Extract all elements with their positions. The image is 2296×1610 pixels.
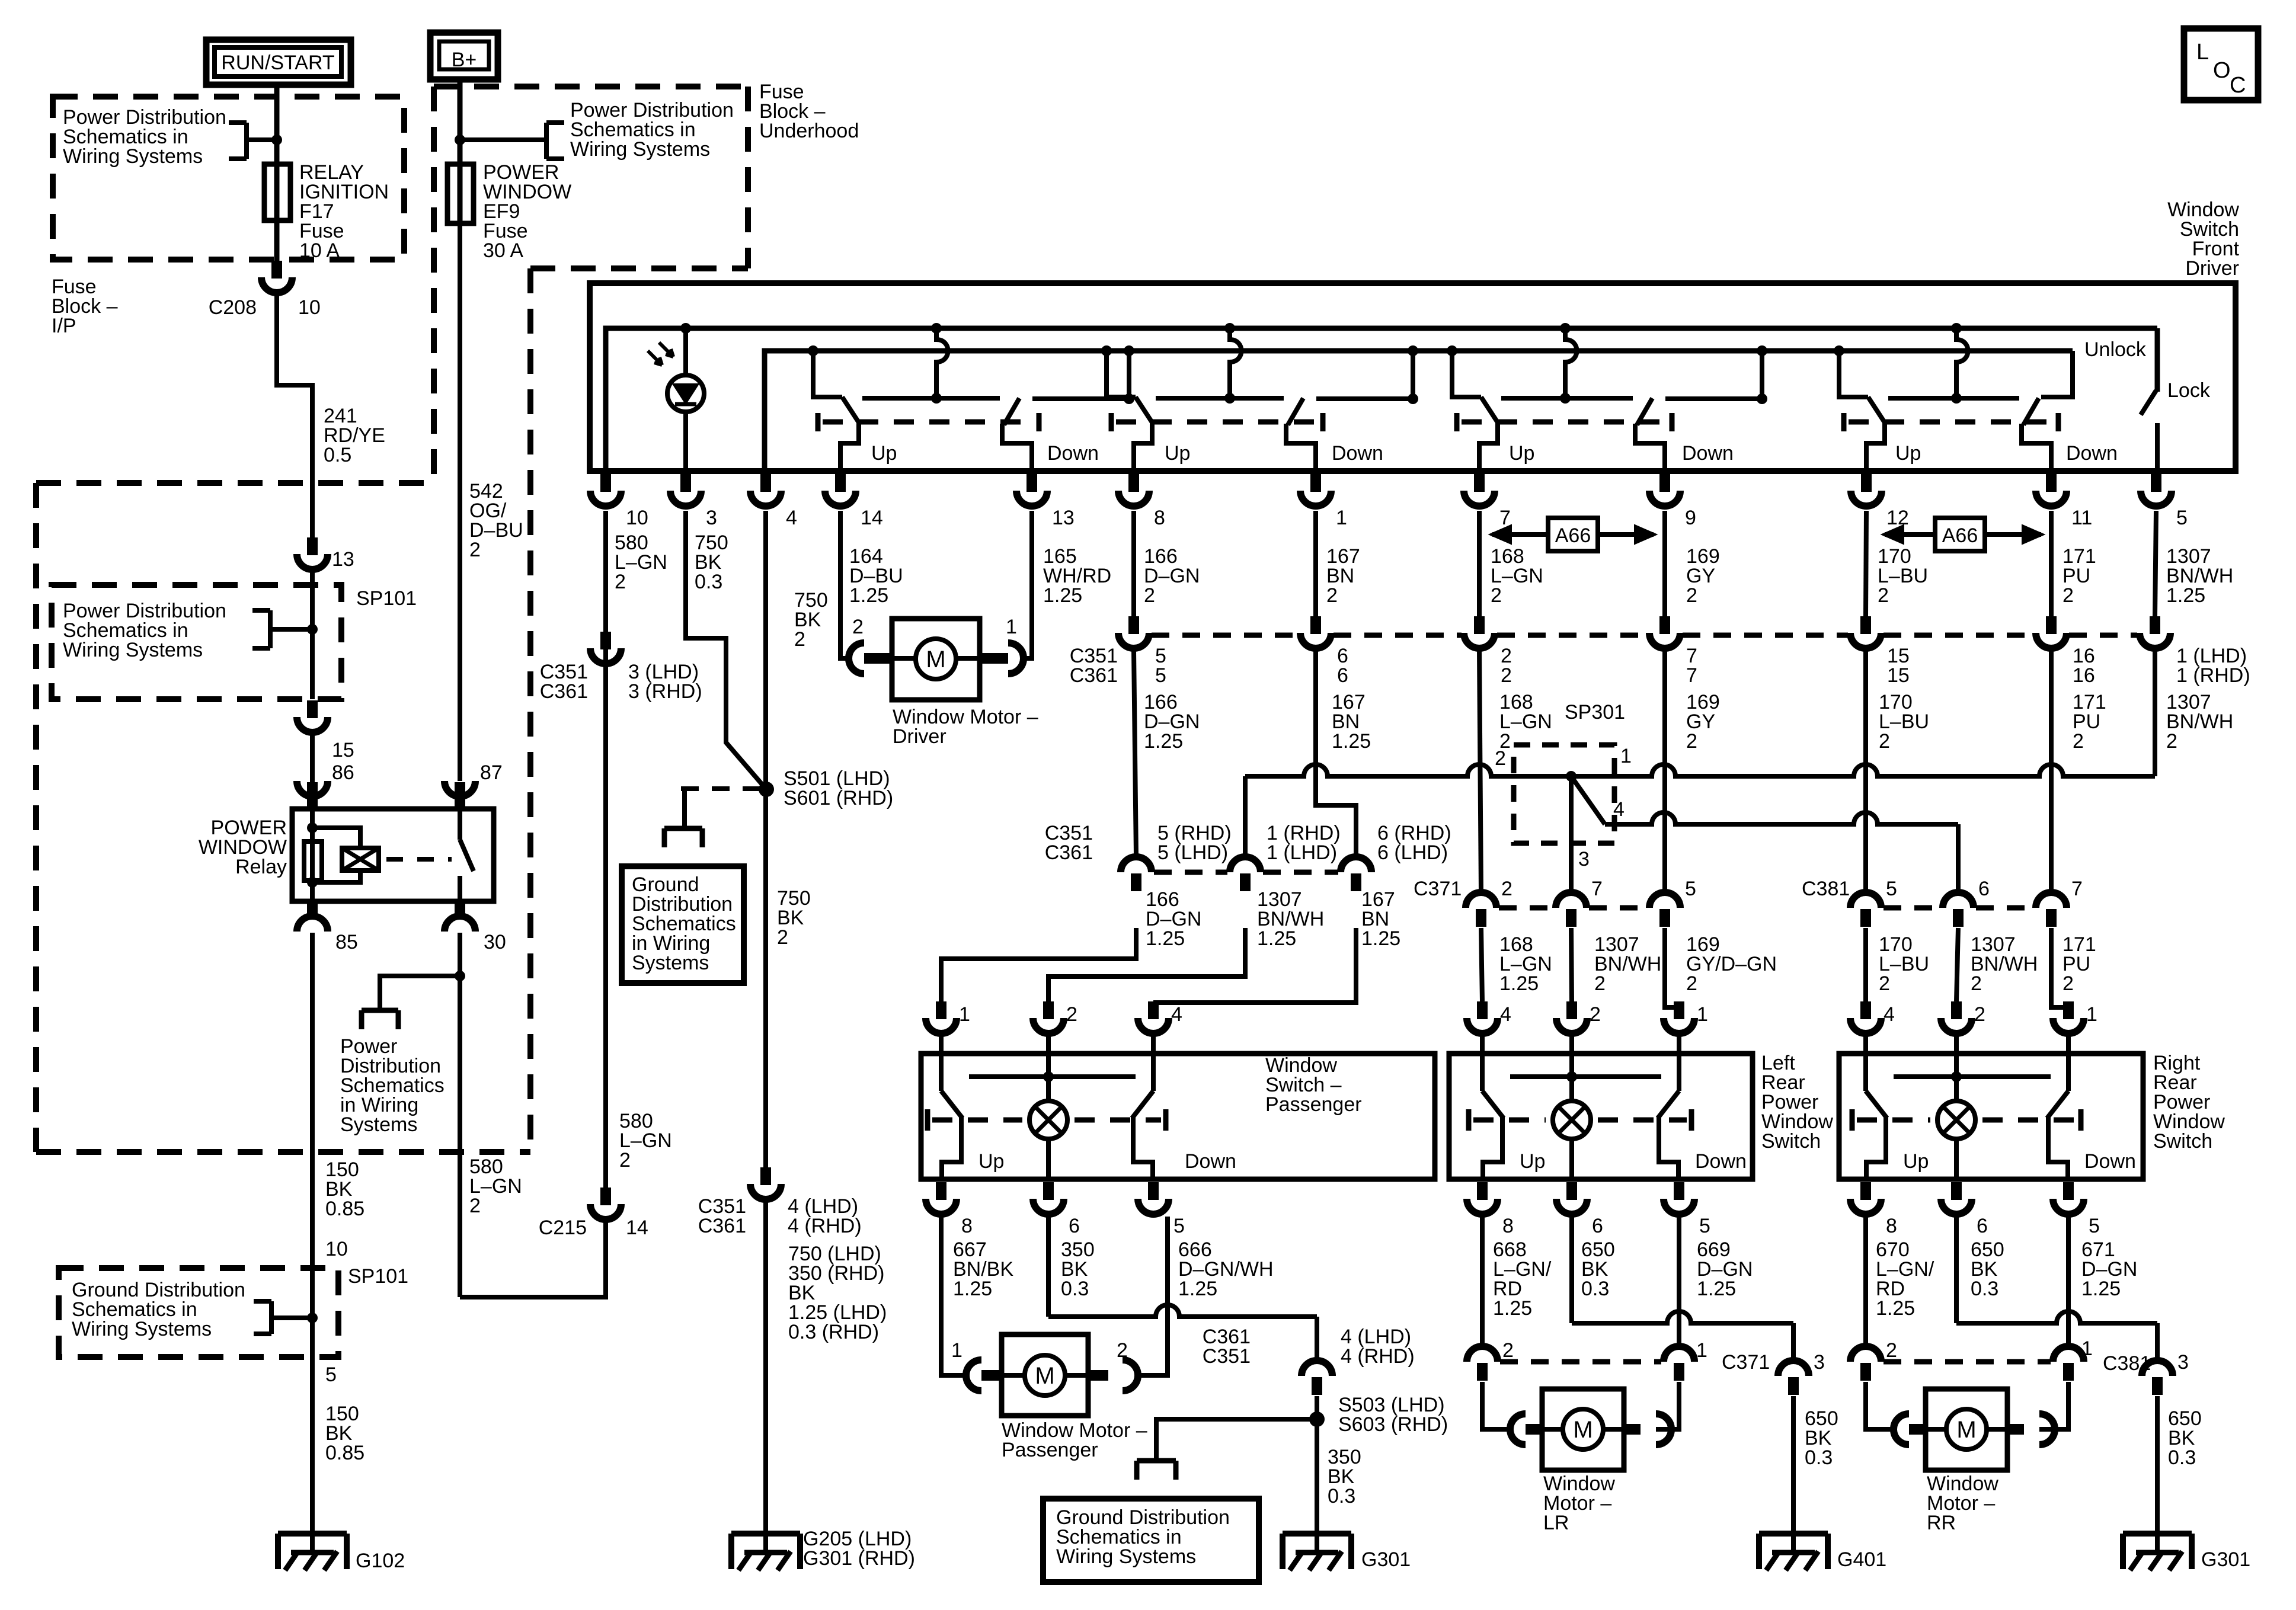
switch blade Down [1288,398,1303,425]
switch Down fixed contact line [1316,396,1413,401]
right rear power window switch bottom connector pin cups [1860,1182,1871,1200]
svg-text:2: 2 [1590,1003,1601,1026]
connector C381 pin 3 [2142,1361,2173,1376]
LED backlight drop [680,323,691,334]
svg-text:30: 30 [484,931,506,953]
switch Down pivot to pin [1286,424,1316,471]
svg-text:30 A: 30 A [483,239,523,262]
svg-text:12: 12 [1886,507,1909,529]
svg-text:8: 8 [1154,507,1165,529]
bus B drop to Down contact [1408,345,1418,356]
window motor RR symbol [1946,1409,1987,1449]
wire SP101 to relay pin 86 [310,735,315,782]
driver switch connector pin 3 [680,474,691,492]
LOC reference symbol [2184,28,2258,100]
wire 1307 to LR switch pin 2 [1571,928,1572,1001]
wire 580 L-GN to C215 [460,1222,606,1297]
bus A drop to Up contact [1224,323,1235,334]
svg-text:RUN/START: RUN/START [221,52,334,74]
svg-text:1.25: 1.25 [1697,1278,1736,1300]
left rear power window switch box [1449,1054,1753,1179]
driver switch connector pin 13 [1027,474,1037,492]
svg-text:0.85: 0.85 [325,1198,364,1220]
bus A drop to Up contact [1560,323,1571,334]
svg-text:1.25: 1.25 [1493,1297,1532,1320]
switch Up fixed contact line [1888,396,2019,401]
svg-text:2: 2 [2062,972,2074,995]
svg-text:0.5: 0.5 [324,444,351,466]
svg-text:3: 3 [2177,1351,2189,1374]
svg-text:14: 14 [626,1217,648,1239]
wire 580 L-GN 2 from window switch pin 10 [603,511,608,1188]
wire 666 to passenger motor [1137,1217,1168,1375]
connector C351/C361 cup pin 5 [1128,616,1139,634]
svg-text:2: 2 [1326,584,1338,607]
svg-text:Systems: Systems [340,1113,417,1136]
left rear power window switch Down blade [1658,1091,1679,1118]
svg-text:6 (LHD): 6 (LHD) [1377,841,1448,864]
splice S501/S601 [759,782,774,797]
svg-text:4: 4 [1171,1003,1182,1026]
svg-text:Down: Down [2066,442,2118,465]
svg-text:C371: C371 [1414,878,1462,900]
window motor LR box [1542,1389,1624,1470]
svg-text:2: 2 [2062,584,2074,607]
ground G401 [1791,1396,1796,1536]
connector C381 cup pin 6 [1943,892,1974,908]
svg-text:1.25: 1.25 [1332,730,1371,753]
svg-text:3: 3 [1814,1351,1825,1374]
svg-text:8: 8 [961,1215,973,1237]
junction node to power distribution reference [455,971,465,981]
switch Up fixed contact line [1156,396,1284,401]
connector C351 C361 pin 3 in 580 wire [600,632,611,649]
switch blade Up [1868,397,1886,424]
switch Up fixed contact line [1501,396,1633,401]
window switch front driver box [590,283,2236,471]
svg-text:C371: C371 [1722,1351,1770,1374]
driver switch connector pin 5 [2151,474,2161,492]
svg-text:2: 2 [619,1149,631,1172]
svg-text:Wiring Systems: Wiring Systems [63,639,203,661]
svg-text:Systems: Systems [632,952,709,974]
svg-text:4: 4 [1500,1003,1511,1026]
svg-text:8: 8 [1886,1215,1897,1237]
driver switch connector pin 9 [1659,474,1670,492]
svg-text:14: 14 [861,507,883,529]
driver switch connector pin 12 [1861,474,1872,492]
svg-text:2: 2 [1879,972,1890,995]
fuse EF9 POWER WINDOW 30 A [447,164,474,223]
wire 164 D-BU to driver motor [840,511,849,658]
right rear power window switch Down blade [2047,1091,2068,1118]
driver switch connector pin 1 [1310,474,1321,492]
svg-text:10 A: 10 A [299,239,340,262]
wire 671 to RR motor connector [2066,1217,2071,1346]
dashed box Fuse Block - I/P (relay section) [36,480,434,486]
svg-text:C361: C361 [1070,664,1118,687]
svg-text:S601 (RHD): S601 (RHD) [784,787,893,809]
svg-text:Wiring Systems: Wiring Systems [63,145,203,168]
SP301 pin 3 wire [1569,776,1574,892]
connector C351/C361 cup pin 6 [1310,616,1321,634]
svg-text:2: 2 [1501,878,1512,900]
svg-text:5: 5 [1173,1215,1185,1237]
svg-text:3: 3 [1578,848,1590,870]
svg-text:2: 2 [852,616,864,638]
switch Up pivot to pin [840,423,859,471]
splice S503/S603 [1309,1411,1325,1427]
junction node SP301 [1566,771,1576,782]
left rear power window switch lamp [1569,1077,1574,1102]
svg-text:1: 1 [2086,1003,2097,1026]
switch Up pivot to pin [1134,423,1152,471]
switch mechanical linkage dashes [1109,413,1114,431]
svg-text:0.3 (RHD): 0.3 (RHD) [788,1321,879,1343]
svg-text:Up: Up [1903,1150,1929,1173]
svg-text:Down: Down [1185,1150,1236,1173]
svg-text:A66: A66 [1942,524,1978,547]
svg-text:Unlock: Unlock [2084,338,2147,361]
svg-text:G301 (RHD): G301 (RHD) [803,1547,915,1570]
svg-text:G102: G102 [356,1550,405,1572]
connector C351/C361 cup pin 16 [2046,616,2057,634]
right rear power window switch internal bus [1894,1074,2051,1079]
svg-text:2: 2 [615,571,626,593]
relay connector pin 30 [455,901,465,917]
connector C381 cup pin 7 [2036,892,2067,908]
wire 580 L-GN 2 from relay pin 30 [458,933,462,1297]
svg-text:87: 87 [480,761,503,784]
driver switch connector pin 10 [600,474,611,492]
connector A66 reference (pins 12-11) [1885,532,2041,537]
svg-text:Up: Up [1509,442,1534,465]
switch feed from bus B at x=1372 [808,345,818,356]
splice SP101 (ground) dashed box [59,1268,338,1357]
reference branch from S503 [1156,1419,1317,1461]
wire 1307 to C351 row2 [1243,776,1248,857]
svg-text:1.25: 1.25 [1257,927,1296,950]
window switch passenger box [921,1054,1435,1179]
window switch passenger mechanical linkage [925,1109,930,1131]
svg-text:2: 2 [1502,1339,1514,1362]
svg-text:0.3: 0.3 [1805,1446,1833,1469]
svg-text:5: 5 [2176,507,2188,529]
svg-text:1.25: 1.25 [1178,1278,1217,1300]
svg-text:Down: Down [1332,442,1383,465]
connector C371 cup pin 5 [1649,892,1680,908]
svg-text:LR: LR [1543,1512,1569,1534]
wire into SP101 splice [310,572,315,699]
relay coil symbol [342,848,379,870]
wires from switch pins to connector row C351/C361 [1131,511,1136,616]
svg-text:B+: B+ [452,49,477,71]
svg-text:2: 2 [1144,584,1155,607]
svg-text:SP101: SP101 [348,1265,408,1288]
switch Down fixed contact line [1032,396,1129,401]
wire B+ to fuse EF9 [458,79,463,164]
svg-text:2: 2 [1117,1339,1128,1362]
wire 166 to passenger switch pin 1 [941,928,1136,1001]
svg-text:1.25: 1.25 [849,584,888,607]
wire 169 GY row1 to C371 [1662,651,1667,892]
connector C351 C361 pin 4 [760,1167,771,1185]
window switch passenger internal feed wires [939,1054,944,1091]
wire 241 RD/YE 0.5 [277,295,312,537]
svg-text:C361: C361 [1045,841,1093,864]
RR motor wiring [1866,1382,1894,1429]
right rear power window switch internal feed wires [1863,1054,1868,1091]
switch feed from bus B at x=2450 [1447,345,1457,356]
svg-text:1.25: 1.25 [1144,730,1183,753]
svg-text:8: 8 [1502,1215,1514,1237]
svg-text:2: 2 [469,1195,481,1217]
passenger motor pin 2 [1088,1370,1108,1381]
svg-text:0.3: 0.3 [695,571,722,593]
wire 350 BK to splice S503 [1315,1396,1319,1536]
svg-text:G301: G301 [1361,1548,1411,1571]
svg-text:A66: A66 [1555,524,1591,547]
connector C351/C361 row2 cup 6 (RHD) [1341,857,1371,872]
window switch passenger Up blade [941,1091,962,1118]
reference bracket Power Distribution Schematics (RUN/START) [244,123,249,159]
svg-text:Up: Up [1165,442,1190,465]
window switch passenger lamp [1046,1077,1051,1102]
svg-text:1.25: 1.25 [1361,927,1400,950]
junction node on RUN/START feed [271,135,282,145]
LED backlight (switch illumination) [667,375,704,412]
svg-text:SP301: SP301 [1565,701,1625,724]
svg-text:1: 1 [1620,745,1632,767]
svg-text:G401: G401 [1837,1548,1886,1571]
switch blade Up [1136,397,1153,424]
SP301 diagonal to pin 4 [1571,776,1605,824]
bus B (ground bus inside switch) [765,351,2073,471]
wire 668 to LR motor connector [1480,1217,1485,1346]
switch mechanical linkage dashes [1841,413,1847,431]
svg-text:6: 6 [1337,664,1348,687]
svg-text:2: 2 [1878,584,1889,607]
wire 167 BN row1 to row2 with jog [1316,651,1356,857]
svg-text:1: 1 [951,1339,962,1362]
svg-text:C215: C215 [539,1217,587,1239]
wire 669 to LR motor connector [1677,1217,1681,1346]
svg-text:1.25: 1.25 [2081,1278,2121,1300]
svg-text:C381: C381 [1802,878,1850,900]
svg-text:Driver: Driver [2185,257,2239,280]
svg-text:7: 7 [2071,878,2083,900]
ground G102 [278,1531,347,1537]
lockout switch Unlock position wire [2041,351,2073,397]
bus A (580 L-GN feed inside switch) [606,328,2157,471]
wire 667 to passenger motor [941,1217,966,1375]
driver switch connector pin 11 [2046,474,2057,492]
connector C351/C361 cup pin 1 (LHD) [2150,616,2160,634]
switch Up pivot to pin [1479,423,1498,471]
svg-text:Underhood: Underhood [759,120,859,142]
svg-text:9: 9 [1685,507,1696,529]
wire 171 PU row1 to C381 [2049,651,2054,892]
switch feed from bus B at x=3103 [1834,345,1844,356]
left rear power window switch bottom connector pin cups [1477,1182,1488,1200]
switch blade Down [1637,398,1652,425]
svg-text:M: M [1956,1417,1976,1443]
svg-text:4: 4 [786,507,797,529]
connector C371 cup pin 2 [1466,892,1496,908]
svg-text:2: 2 [2166,730,2177,753]
lockout switch Lock blade [2155,328,2160,392]
svg-text:4: 4 [1613,798,1625,821]
connector C351/C361 cup pin 2 [1474,616,1485,634]
right rear power window switch box [1839,1054,2143,1179]
net 1307 BN/WH horizontal H1 [1245,764,2155,776]
dashed box Fuse Block - I/P (upper) [53,97,404,260]
svg-text:2: 2 [777,926,788,949]
reference bracket Power Distribution Schematics (B+) [544,123,549,159]
svg-text:C361: C361 [698,1215,746,1237]
svg-text:Down: Down [1682,442,1734,465]
bus A drop to Up contact [1951,323,1962,334]
svg-text:1 (RHD): 1 (RHD) [2176,664,2250,687]
bus A drop to Up contact [931,323,942,334]
dashed box Fuse Block - Underhood [434,84,748,89]
switch Down pivot to pin [1002,424,1032,471]
driver motor connector pin 1 [980,653,1008,664]
switch Down pivot to pin [2022,424,2051,471]
ground distribution box (S503) [1043,1499,1259,1582]
dashed reference from S501 [676,786,760,791]
right rear power window switch top connector pin cups [1860,1001,1871,1019]
svg-text:G301: G301 [2201,1548,2250,1571]
power source label RUN/START [206,40,351,85]
connector C371 pin 3 [1778,1361,1809,1376]
svg-text:16: 16 [2073,664,2095,687]
wire 167 to passenger switch pin 4 [1153,928,1356,1003]
connector cup pin 13 at SP101 [307,537,318,555]
svg-text:4: 4 [1884,1003,1895,1026]
svg-text:Lock: Lock [2167,379,2211,402]
svg-text:1: 1 [959,1003,970,1026]
connector C381 cup pin 5 [1850,892,1881,908]
wire 165 WH/RD to driver motor [1024,511,1032,658]
svg-text:SP101: SP101 [356,587,417,610]
svg-text:1.25: 1.25 [1499,972,1539,995]
svg-text:6: 6 [1069,1215,1080,1237]
svg-text:0.3: 0.3 [1061,1278,1089,1300]
connector C371 cup pin 7 [1556,892,1587,908]
svg-text:4 (RHD): 4 (RHD) [1341,1345,1415,1368]
svg-text:6: 6 [1977,1215,1988,1237]
svg-text:2: 2 [1886,1339,1897,1362]
switch mechanical linkage dashes [816,413,821,431]
svg-text:1: 1 [1696,1339,1707,1362]
window switch passenger bottom connector pin cups [936,1182,946,1200]
svg-text:RR: RR [1927,1512,1956,1534]
window switch passenger internal bus [969,1074,1136,1079]
svg-text:1: 1 [1336,507,1347,529]
svg-text:86: 86 [332,761,354,784]
window motor LR symbol [1563,1409,1603,1449]
svg-text:10: 10 [298,296,321,319]
svg-text:Switch: Switch [2153,1130,2212,1153]
svg-text:11: 11 [2071,507,2092,529]
driver switch connector pin 4 [760,474,771,492]
svg-text:5: 5 [2089,1215,2100,1237]
svg-text:Wiring Systems: Wiring Systems [1056,1545,1196,1568]
svg-text:0.3: 0.3 [1328,1485,1355,1507]
relay mechanical link dash [386,857,452,862]
wire 1307 from lock pin 5 [2153,651,2157,776]
svg-text:0.3: 0.3 [1971,1278,1998,1300]
svg-text:Up: Up [1895,442,1921,465]
reference branch to Power Distribution text [380,976,460,1010]
window motor passenger box [1002,1334,1088,1416]
svg-text:7: 7 [1686,664,1697,687]
svg-text:1.25: 1.25 [953,1278,992,1300]
RR motor connector row [1850,1346,1881,1362]
wire 171 to RR switch pin 1 [2051,928,2068,1007]
svg-text:2: 2 [1495,747,1506,770]
fuse F17 RELAY IGNITION 10 A [264,164,290,220]
connector C351/C361 cup pin 7 [1659,616,1670,634]
svg-text:C351: C351 [1203,1345,1251,1368]
right rear power window switch mechanical linkage [1850,1109,1855,1131]
svg-text:2: 2 [1686,972,1697,995]
wire 750 BK 2 from switch pin 4 [763,511,768,1167]
svg-text:1 (LHD): 1 (LHD) [1267,841,1337,864]
wire fuse F17 to connector C208 [274,220,280,261]
svg-text:2: 2 [1066,1003,1077,1026]
svg-text:2: 2 [2073,730,2084,753]
svg-text:C361: C361 [540,680,588,703]
window motor passenger symbol [1025,1355,1065,1395]
svg-text:Up: Up [1520,1150,1545,1173]
svg-text:13: 13 [1052,507,1075,529]
svg-text:0.85: 0.85 [325,1442,364,1464]
wire to ground G205/G301 [763,1202,768,1536]
driver switch connector pin 8 [1128,474,1139,492]
svg-text:6: 6 [1592,1215,1603,1237]
svg-text:M: M [1573,1417,1593,1443]
ground distribution box (S501) [622,866,744,983]
svg-text:Wiring Systems: Wiring Systems [570,138,710,161]
switch Up pivot to pin [1866,423,1885,471]
switch mechanical linkage dashes [1454,413,1460,431]
svg-text:2: 2 [469,539,481,561]
svg-text:5: 5 [1699,1215,1710,1237]
svg-text:Relay: Relay [235,856,287,878]
bus B drop to Down contact [1757,345,1767,356]
window motor driver box [892,619,980,700]
connector C351/C361 row2 cup 5 (RHD) [1121,857,1152,872]
svg-text:Down: Down [1695,1150,1747,1173]
splice SP101 dashed box [52,585,341,699]
driver switch connector pin 7 [1474,474,1485,492]
power source label B+ [430,33,498,79]
wire 750 BK 0.3 from switch pin 3 [686,511,766,789]
switch blade Down [1004,398,1019,425]
left rear power window switch mechanical linkage [1466,1109,1472,1131]
svg-text:Up: Up [871,442,897,465]
svg-text:C208: C208 [209,296,257,319]
relay coil resistor [304,841,322,881]
switch blade Up [842,397,860,424]
svg-text:15: 15 [1887,664,1910,687]
svg-text:1.25: 1.25 [1876,1297,1915,1320]
svg-text:2: 2 [1686,730,1697,753]
reference bracket Power Distribution Schematics (SP101) [268,610,273,648]
switch blade Down [2023,398,2039,425]
